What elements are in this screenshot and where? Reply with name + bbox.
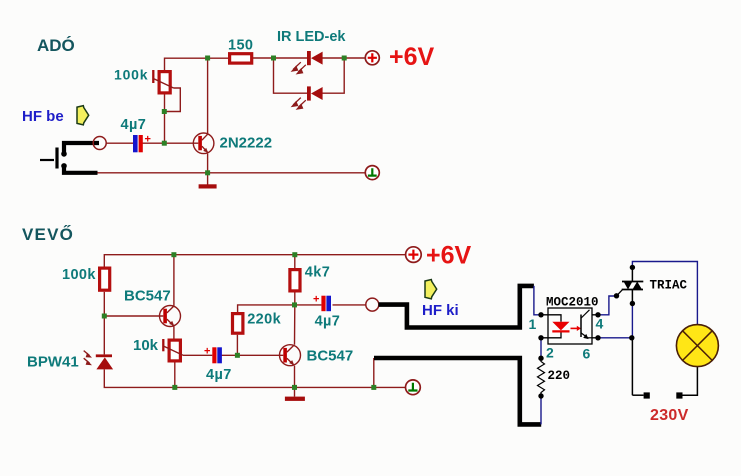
svg-text:4k7: 4k7 (305, 265, 330, 281)
svg-text:100k: 100k (114, 67, 148, 83)
svg-text:IR LED-ek: IR LED-ek (277, 29, 346, 45)
svg-text:VEVŐ: VEVŐ (22, 225, 74, 244)
mains terminal pads (644, 392, 650, 398)
wire bottom rail ADO (98, 172, 366, 174)
LED inside opto (552, 322, 569, 331)
wire cap out to connector (333, 304, 366, 306)
IR LED D2 (291, 86, 323, 110)
ground VEVO (285, 397, 305, 401)
wire ground stub VEVO (294, 387, 296, 396)
cable thick out2 (374, 358, 541, 424)
icon arrow HF be (77, 106, 89, 125)
wire capacitor to base (143, 142, 199, 144)
wire emitter Q2 to trimmer (173, 326, 175, 339)
connector +6V ADO (365, 43, 434, 71)
wire 4k7 bottom / collector Q3 (295, 293, 322, 345)
wire wiper 10k to cap (183, 354, 212, 356)
phototriac inside opto (581, 310, 592, 338)
wire pin2 blue (540, 338, 542, 358)
svg-text:+: + (313, 294, 319, 306)
wire rail to cable2 (373, 358, 375, 387)
svg-text:10k: 10k (133, 337, 159, 354)
svg-text:MOC2010: MOC2010 (546, 296, 599, 310)
wire collector Q2 (173, 255, 175, 306)
svg-text:BC547: BC547 (124, 288, 171, 305)
svg-text:+: + (145, 134, 151, 146)
connector +6V VEVO (406, 242, 472, 270)
wire collector Q1 (207, 58, 209, 133)
svg-text:4µ7: 4µ7 (315, 314, 341, 330)
wire BPW41 to bottom rail (104, 369, 405, 387)
icon arrow HF ki (425, 280, 437, 299)
svg-text:ADÓ: ADÓ (37, 36, 75, 55)
wire triac to pin6 node blue (631, 304, 633, 338)
svg-text:HF be: HF be (22, 108, 64, 125)
node junctions VEVO (102, 252, 377, 390)
mains bottom hooks (632, 267, 697, 395)
wire emitter Q1 to rail (207, 154, 209, 173)
wire triac top to lamp blue (632, 262, 697, 325)
svg-text:230V: 230V (650, 407, 689, 424)
svg-text:+6V: +6V (389, 43, 435, 71)
photodiode BPW41 (27, 351, 113, 371)
wire pin1 blue (534, 286, 541, 315)
svg-text:2N2222: 2N2222 (220, 135, 273, 152)
wire 4k7 top (294, 255, 296, 268)
svg-text:HF ki: HF ki (422, 302, 459, 319)
capacitor 4u7 out (313, 294, 340, 330)
connector HF out circle (366, 298, 379, 311)
resistor 100k VEVO (62, 267, 110, 290)
triac (617, 279, 688, 296)
capacitor 4u7 ADO (121, 117, 151, 152)
jack plug input (40, 143, 99, 173)
svg-text:1: 1 (529, 316, 537, 332)
wire 150 to LED branch (253, 57, 307, 59)
wire trimmer bottom to base node (164, 95, 166, 144)
transistor Q2 BC547 (124, 288, 181, 327)
svg-text:+: + (204, 345, 210, 357)
wire triac anode leads black (631, 267, 633, 395)
resistor 4k7 (290, 265, 330, 291)
wire trimmer 10k to rail (174, 363, 176, 388)
wire input connector to capacitor (106, 142, 133, 144)
wire emitter Q3 (294, 366, 296, 388)
wire pin4 to gate blue (598, 296, 617, 315)
capacitor 4u7 VEVO1 (204, 345, 232, 383)
wire 220k branch (237, 305, 294, 355)
svg-text:4µ7: 4µ7 (121, 117, 147, 133)
resistor 220 zigzag (538, 358, 571, 396)
wire trimmer wiper (164, 88, 180, 112)
cable thick out1 (379, 286, 534, 328)
connector 0V ADO (365, 166, 379, 180)
svg-text:150: 150 (228, 38, 253, 54)
trimmer 10k (133, 337, 183, 361)
svg-text:+6V: +6V (426, 242, 472, 270)
svg-text:4: 4 (596, 316, 604, 332)
wire 100k to node (103, 292, 105, 355)
IR LED D1 (291, 51, 323, 75)
wire LED parallel branch (274, 58, 345, 93)
optocoupler MOC2010 (529, 296, 604, 362)
wire resistor to cable2 blue (540, 396, 542, 424)
lamp (676, 325, 718, 367)
wire base Q2 (104, 315, 163, 317)
connector input circle (93, 137, 106, 150)
wire cap to base node Q3 (221, 354, 284, 356)
wire pin6 to triac blue (598, 337, 632, 339)
resistor 150 (228, 38, 253, 64)
svg-text:2: 2 (546, 345, 554, 361)
svg-text:6: 6 (583, 346, 591, 362)
svg-text:TRIAC: TRIAC (650, 279, 688, 293)
svg-text:220: 220 (548, 369, 571, 383)
svg-text:100k: 100k (62, 267, 96, 283)
wire top rail ADO (165, 58, 229, 70)
svg-text:BC547: BC547 (307, 348, 354, 365)
connector 0V VEVO (406, 380, 421, 395)
transistor Q3 BC547 (280, 345, 354, 366)
svg-text:BPW41: BPW41 (27, 354, 79, 371)
wire LED1 cathode to +6V (323, 57, 366, 59)
svg-text:220k: 220k (247, 312, 281, 328)
node junctions ADO (162, 56, 347, 176)
wire ground stub ADO (207, 173, 209, 185)
black junction dots (538, 265, 635, 399)
resistor 220k (233, 312, 282, 334)
arrow inside opto (571, 327, 578, 329)
svg-text:4µ7: 4µ7 (206, 367, 232, 383)
wire top rail VEVO (104, 255, 405, 267)
trimmer 100k (114, 67, 174, 93)
ground ADO (199, 184, 217, 188)
transistor Q1 2N2222 (193, 133, 272, 154)
